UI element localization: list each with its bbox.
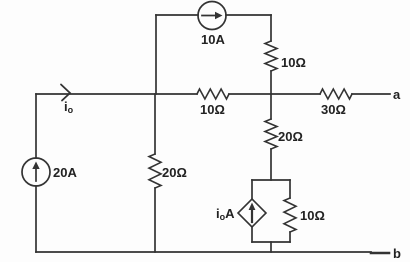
wire left branch lower stub — [251, 227, 253, 242]
resistor 10Ω middle — [197, 89, 229, 99]
wire right branch lower stub — [289, 232, 291, 242]
svg-text:20Ω: 20Ω — [278, 129, 303, 144]
svg-text:30Ω: 30Ω — [321, 102, 346, 117]
svg-text:a: a — [393, 87, 401, 102]
svg-text:10Ω: 10Ω — [300, 208, 325, 223]
svg-text:b: b — [393, 246, 401, 261]
wire center stub to bottom rail — [270, 242, 272, 252]
wire middle horizontal between resistors — [229, 93, 320, 95]
svg-text:20Ω: 20Ω — [162, 165, 187, 180]
svg-text:10Ω: 10Ω — [200, 102, 225, 117]
resistor 20Ω right branch — [265, 119, 277, 149]
wire second vertical upper segment — [155, 15, 157, 94]
wire top horizontal left segment — [156, 14, 198, 16]
wire bottom rail — [36, 251, 371, 253]
wire from 20Ω down to parallel block — [270, 149, 272, 180]
wire terminal b lead — [371, 252, 389, 255]
dependent current source ioA — [238, 199, 266, 227]
svg-text:ioA: ioA — [216, 206, 235, 222]
wire right vertical upper segment — [270, 15, 272, 41]
wire right branch upper stub — [289, 180, 291, 198]
wire left vertical lower segment — [35, 186, 37, 252]
resistor 30Ω — [320, 89, 352, 99]
wire parallel block bottom bar — [252, 241, 290, 243]
resistor 20Ω middle branch — [149, 154, 161, 188]
resistor 10Ω bottom-right — [284, 198, 296, 232]
wire parallel block top bar — [252, 179, 290, 181]
wire to terminal a — [352, 93, 390, 95]
arrow for current io — [61, 85, 70, 101]
wire middle horizontal from left corner to resistor — [36, 93, 197, 95]
svg-text:10Ω: 10Ω — [281, 55, 306, 70]
wire left vertical upper segment — [35, 94, 37, 158]
current source 20A — [22, 158, 50, 186]
resistor 10Ω top-right — [265, 41, 277, 71]
wire second vertical middle segment — [154, 94, 156, 154]
wire right vertical below middle node — [270, 94, 272, 119]
wire second vertical lower segment — [154, 188, 156, 252]
current source 10A — [198, 2, 226, 30]
svg-text:10A: 10A — [201, 32, 225, 47]
svg-text:20A: 20A — [53, 165, 77, 180]
wire top horizontal right segment — [226, 14, 271, 16]
wire left branch upper stub — [251, 180, 253, 199]
wire right vertical to middle node — [270, 71, 272, 94]
svg-text:io: io — [64, 99, 74, 115]
